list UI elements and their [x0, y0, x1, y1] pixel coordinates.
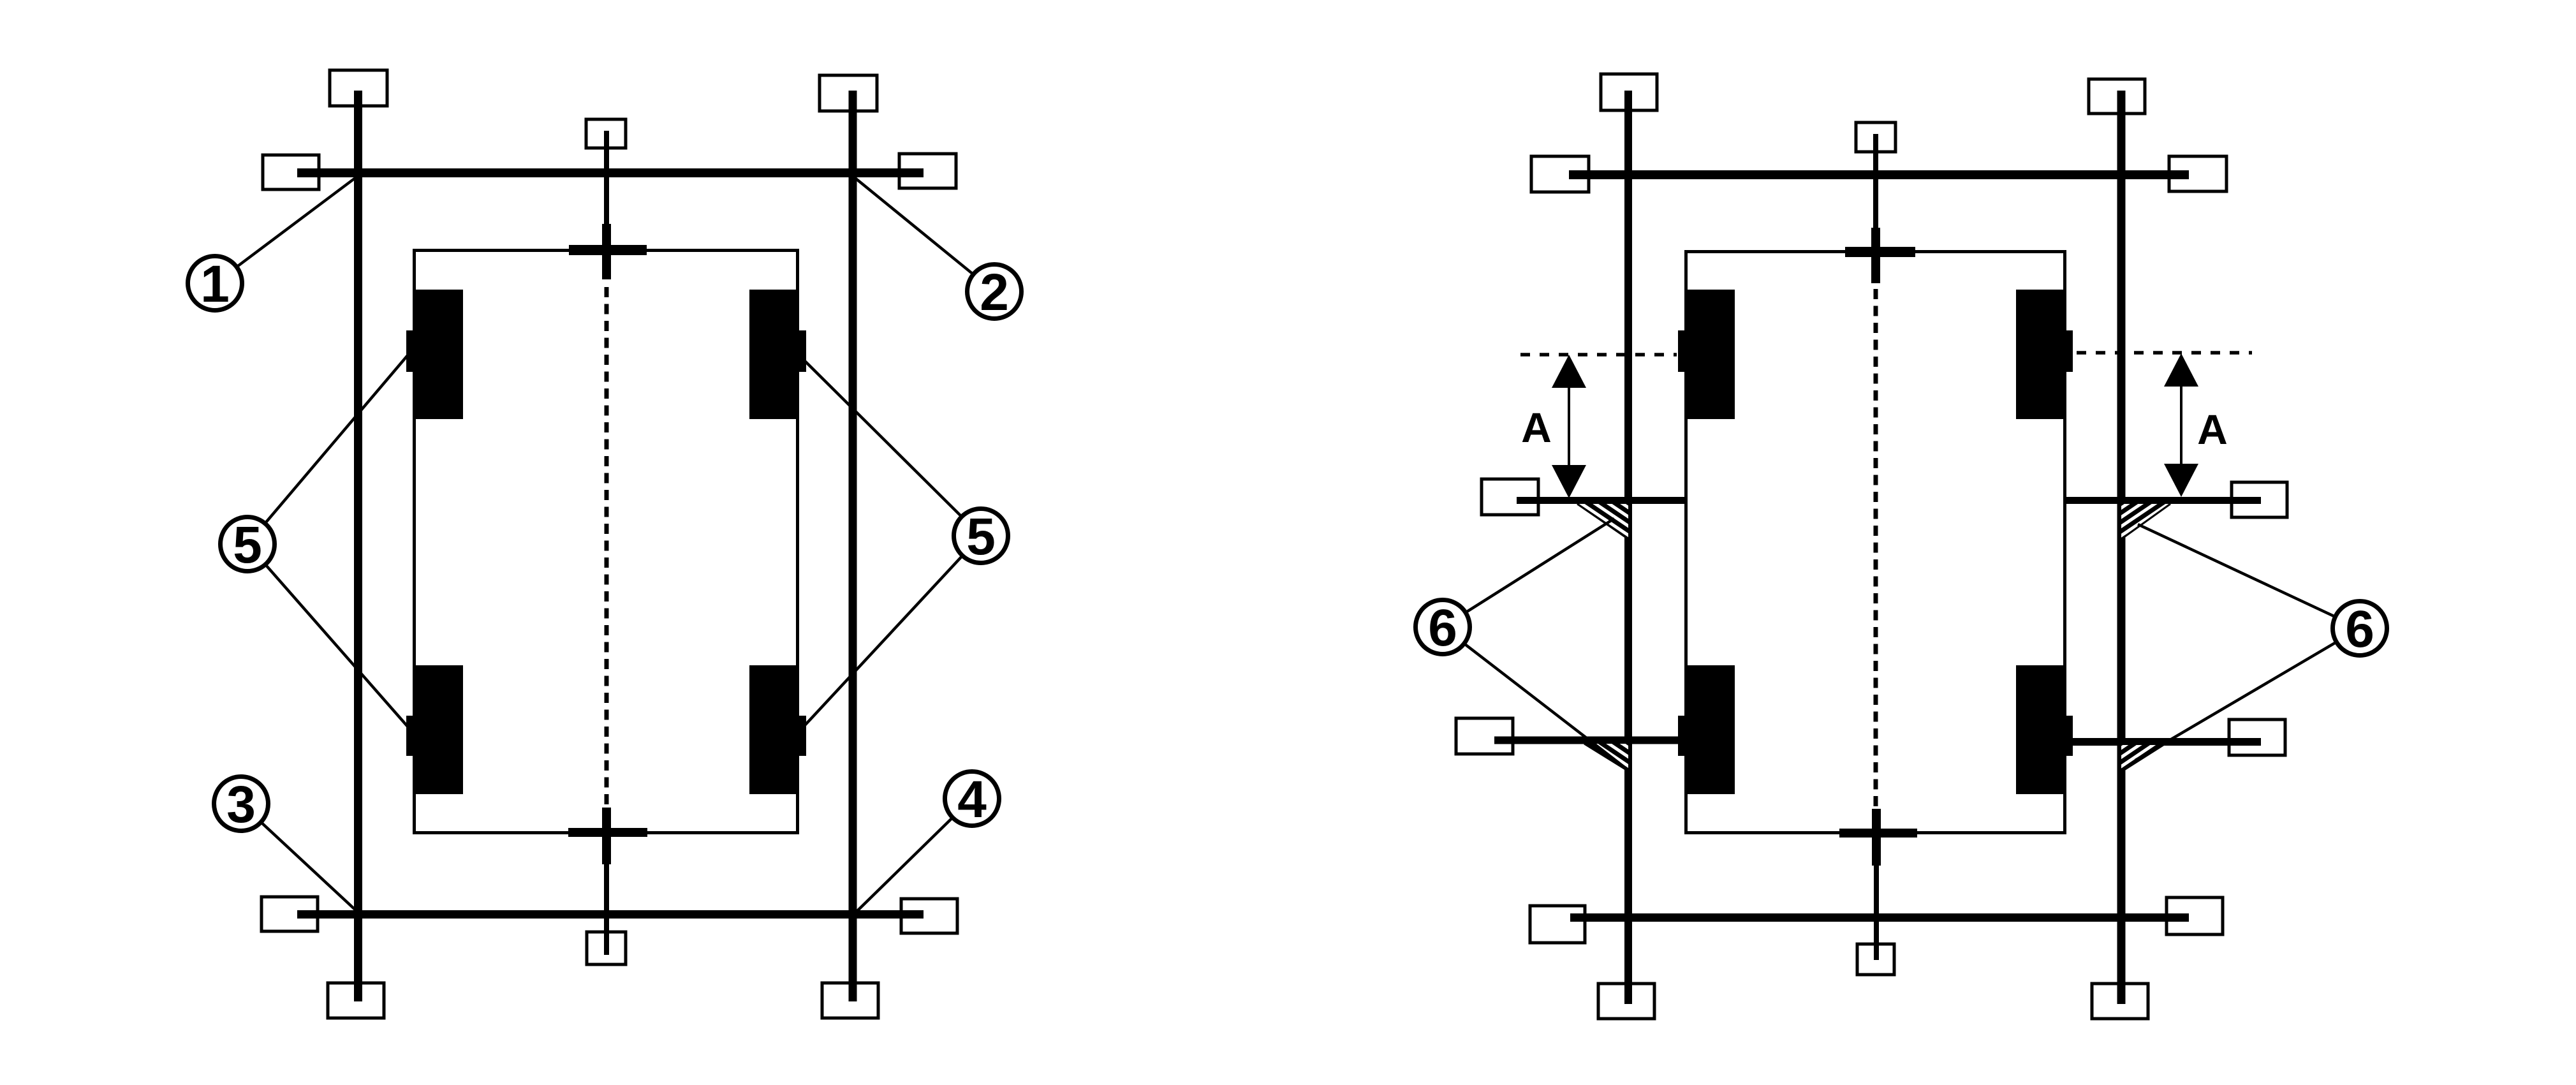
svg-text:2: 2 — [980, 263, 1009, 321]
svg-text:4: 4 — [957, 771, 987, 829]
svg-text:A: A — [1521, 404, 1552, 451]
svg-text:6: 6 — [1428, 599, 1457, 657]
svg-text:5: 5 — [233, 516, 262, 574]
svg-text:A: A — [2197, 406, 2228, 453]
svg-text:5: 5 — [966, 508, 996, 566]
svg-text:3: 3 — [226, 776, 256, 834]
svg-text:1: 1 — [200, 255, 230, 313]
svg-text:6: 6 — [2345, 600, 2374, 658]
